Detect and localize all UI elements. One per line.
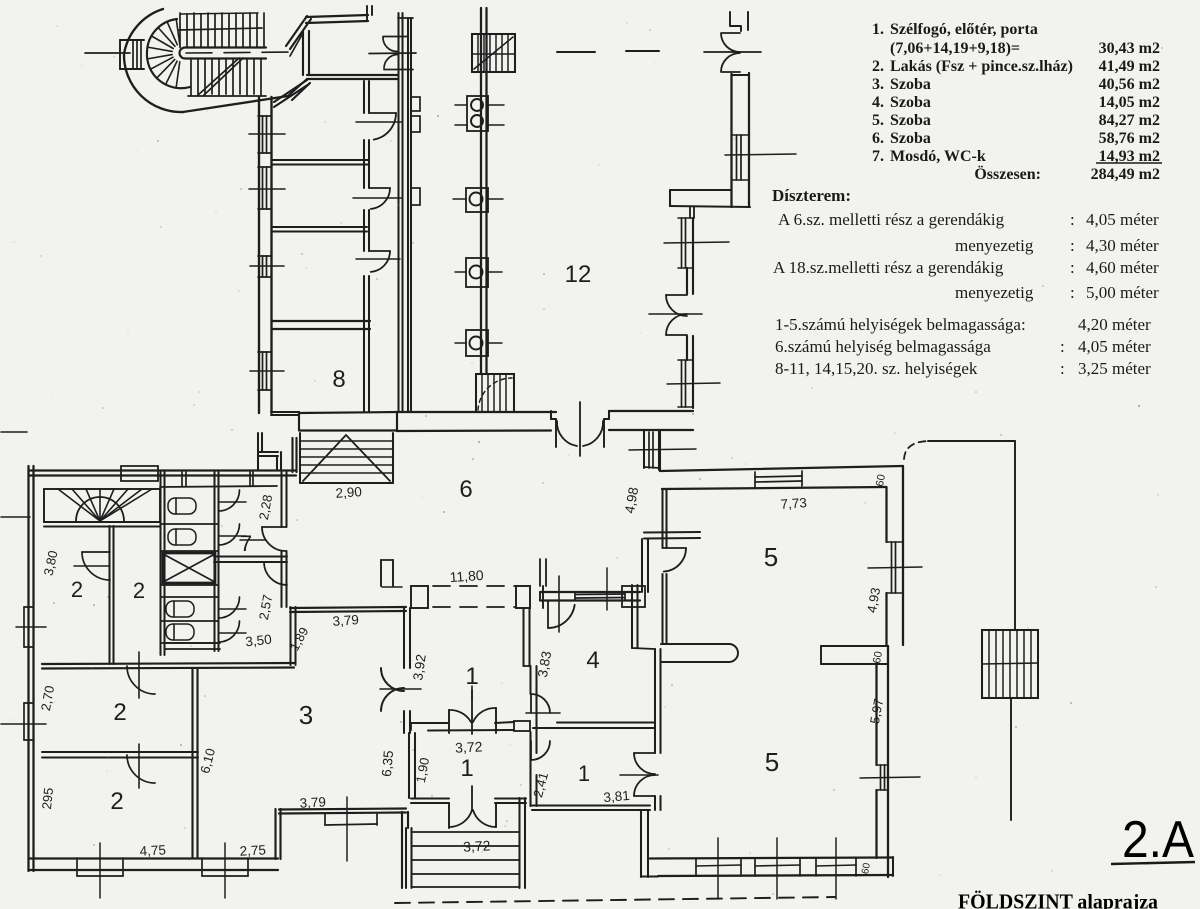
SW block west outer wall [27, 466, 29, 871]
door small room to room 5 (double leaves) [634, 752, 655, 754]
room 1 lower west wall [408, 733, 410, 798]
axis tick left margin y517 [1, 516, 30, 518]
SW block north wall [29, 469, 297, 471]
window in east thick wall [736, 135, 738, 180]
svg-text:4,05 méter: 4,05 méter [1078, 337, 1151, 356]
axis tick left margin y433 [1, 431, 27, 433]
window in west wall 2 [24, 702, 33, 704]
hall east wall lower [289, 607, 291, 665]
main south stair rails [405, 828, 407, 888]
svg-text:1: 1 [578, 761, 590, 786]
partition rooms 2a/2b [108, 526, 110, 664]
wing bottom wall step [298, 412, 300, 430]
svg-text:3,50: 3,50 [245, 632, 273, 650]
door room C - leaf and arc [369, 250, 390, 252]
room 5 lower east wall [887, 646, 889, 877]
corridor wall top stubs [398, 17, 413, 19]
room 1 lower east wall [529, 733, 531, 806]
yard north line [928, 440, 1015, 442]
double door room3 to room1u [381, 668, 404, 691]
svg-text::: : [1070, 283, 1075, 302]
svg-text:Szoba: Szoba [890, 76, 931, 93]
wall rooms 2c/2d [42, 751, 198, 753]
column 3 with circle [466, 258, 488, 287]
radiator box 2 on corridor wall [411, 116, 420, 132]
room 1 lower south wall [411, 797, 449, 799]
svg-text:60: 60 [874, 473, 888, 487]
bay wall vertical [302, 31, 304, 75]
svg-text::: : [1070, 210, 1075, 229]
area list text block [872, 21, 1162, 183]
room 3 north wall [290, 607, 406, 608]
svg-text:2,75: 2,75 [239, 842, 266, 858]
svg-text:6.: 6. [872, 130, 884, 147]
entrance double door leaves [555, 419, 557, 447]
svg-text:58,76 m2: 58,76 m2 [1099, 130, 1160, 147]
stairs 2,90 in hall 6 [299, 433, 301, 483]
room 12 east thick wall upper [730, 74, 732, 207]
top wall right of bay [306, 15, 368, 17]
main south stair treads [412, 831, 520, 833]
column 2 with circle [466, 188, 488, 212]
window W3 on west wall [258, 255, 271, 257]
svg-text:Szoba: Szoba [890, 112, 931, 129]
pier wall west (between 5 upper and lower) [661, 643, 729, 645]
svg-text:3.: 3. [872, 76, 884, 93]
hall 6 south wall [540, 591, 640, 593]
svg-text:2.A: 2.A [1122, 811, 1194, 869]
window in north wall [755, 476, 802, 477]
svg-text:menyezetig: menyezetig [955, 283, 1034, 302]
room 5 west wall [658, 430, 660, 470]
staircase lower edge line [188, 95, 266, 97]
bay wall upper diagonal [286, 16, 307, 46]
svg-text:3,25 méter: 3,25 méter [1078, 359, 1151, 378]
radiator box 1 on corridor wall [411, 97, 420, 111]
door room C - tick [356, 258, 400, 260]
small room door NW - leaf [530, 741, 532, 760]
svg-text:(7,06+14,19+9,18)=: (7,06+14,19+9,18)= [890, 40, 1020, 57]
window in hall6 south wall [575, 593, 625, 596]
svg-text:1.: 1. [872, 21, 884, 38]
room 5 east wall inner [885, 487, 887, 542]
staircase spiral - inner wall arc [147, 19, 190, 88]
yard east line [1014, 441, 1016, 630]
room 5 upper north wall [660, 466, 903, 471]
svg-text:2.: 2. [872, 58, 884, 75]
svg-text:4,20 méter: 4,20 méter [1078, 315, 1151, 334]
entrance door jambs [550, 411, 552, 419]
door room B - tick [353, 197, 401, 199]
svg-text:6,35: 6,35 [379, 750, 396, 777]
svg-text:2: 2 [71, 577, 83, 602]
room 1 upper south wall with double door [411, 722, 449, 724]
svg-text:3,81: 3,81 [603, 788, 630, 805]
south wall corner block east [514, 721, 530, 731]
svg-text::: : [1070, 258, 1075, 277]
small room south wall [532, 804, 650, 806]
svg-text:14,05 m2: 14,05 m2 [1099, 94, 1160, 111]
room 12 west wall [480, 8, 482, 374]
hatched stair box bottom (room 12) [476, 374, 514, 412]
window in room 3 south wall [324, 813, 326, 825]
room 12 north door leaves [722, 32, 740, 34]
room 4 east wall upper [631, 585, 633, 648]
east wall door (double leaves into room 12) [666, 294, 687, 296]
svg-text:60: 60 [871, 650, 885, 664]
svg-text:4,75: 4,75 [139, 842, 166, 858]
window E1 in east wall [681, 218, 683, 268]
svg-text:8: 8 [332, 366, 345, 393]
svg-text:3,72: 3,72 [455, 738, 483, 755]
hatched duct box top [472, 34, 515, 72]
svg-text:40,56 m2: 40,56 m2 [1099, 76, 1160, 93]
corridor stub wall at hall 6 [380, 560, 382, 586]
north wing - slanted top wall of first room [274, 80, 307, 102]
window in east wall lower [880, 765, 882, 790]
corridor east wall (double pair) [397, 13, 399, 412]
hall 6 north wall right of door [609, 410, 693, 412]
staircase bottom outer wall [183, 96, 288, 112]
svg-text:4,30 méter: 4,30 méter [1086, 236, 1159, 255]
entrance door centerline [579, 402, 581, 456]
wing bottom wall left thin part [271, 411, 299, 413]
wall under fan stair [44, 521, 160, 523]
svg-text:5: 5 [764, 542, 778, 572]
svg-text:2,90: 2,90 [335, 484, 362, 501]
svg-text:4: 4 [586, 647, 599, 674]
partition wall room B/C [272, 226, 367, 228]
corridor jamb block west [411, 586, 428, 608]
top wall end stubs [366, 6, 368, 21]
corridor dashed line lower [433, 606, 516, 608]
window W1 on west wall [258, 115, 271, 117]
svg-text:30,43 m2: 30,43 m2 [1099, 40, 1160, 57]
staircase upper treads [179, 13, 181, 48]
door to room 2d - arc and tick [127, 755, 155, 783]
east wall of small rooms (corridor side) [363, 81, 365, 113]
window W2 on west wall [258, 166, 271, 168]
room 1 upper door centerline dash [471, 686, 473, 700]
radiator box 3 on corridor wall [411, 188, 420, 205]
svg-text:6.számú helyiség belmagassága: 6.számú helyiség belmagassága [775, 337, 991, 356]
svg-text:3,79: 3,79 [332, 612, 359, 629]
bay lower diagonal wall [289, 79, 307, 95]
axis dashes through staircase [186, 52, 298, 53]
yard dashed corner arc [904, 441, 928, 459]
WC strip east wall [213, 472, 215, 651]
room 7 door - leaf and arc [262, 526, 286, 528]
WC top vent row [160, 486, 277, 487]
WC strip west wall [159, 472, 161, 655]
staircase fan treads lower-left [176, 62, 179, 87]
room 5 lower south wall [650, 858, 893, 859]
svg-text:Díszterem:: Díszterem: [772, 186, 851, 205]
svg-text:A 18.sz.melletti rész a gerend: A 18.sz.melletti rész a gerendákig [773, 258, 1004, 277]
lintel wall above room 5 door [644, 531, 700, 534]
window in west wall 1 [24, 606, 33, 608]
hatched gate box [982, 630, 1038, 698]
corridor jamb block east [516, 586, 530, 608]
door room B - leaf and arc [369, 187, 390, 189]
corridor dashed line upper [433, 585, 516, 587]
door to room 12 corridor - leaves [383, 36, 408, 38]
small room west wall [529, 732, 531, 806]
door room1u to room4 area - leaf [530, 694, 532, 713]
svg-text:1-5.számú helyiségek belmagass: 1-5.számú helyiségek belmagassága: [775, 315, 1026, 334]
svg-text:FÖLDSZINT alaprajza: FÖLDSZINT alaprajza [958, 890, 1158, 909]
svg-text:Mosdó, WC-k: Mosdó, WC-k [890, 148, 986, 165]
door room A - leaf and arc [369, 112, 396, 114]
svg-text::: : [1070, 236, 1075, 255]
room 1 upper east wall [522, 608, 524, 666]
door rooms 2a/2b [82, 551, 110, 553]
west outer wall of north wing [258, 97, 260, 413]
room 4 east wall jog [632, 648, 655, 649]
svg-text:2: 2 [133, 578, 145, 603]
svg-text:Összesen:: Összesen: [974, 165, 1041, 183]
toilet 4 [166, 624, 194, 640]
svg-text:4.: 4. [872, 94, 884, 111]
dashed property line bottom [395, 897, 835, 903]
window in north wall [121, 465, 158, 467]
svg-text:4,60 méter: 4,60 méter [1086, 258, 1159, 277]
partition wall room A/B [272, 159, 369, 161]
pilaster wall right of entrance [643, 430, 645, 468]
axis tick line left of staircase [85, 52, 130, 54]
wall rooms2ab / 2c [42, 663, 294, 664]
double door room1u/room1l (swings up) [448, 710, 450, 733]
ceiling heights text block [772, 186, 1159, 378]
wing bottom thick wall under room 8 [299, 412, 397, 413]
WC cubicle dividers [161, 523, 219, 525]
staircase main spiral - outer wall arc [124, 9, 183, 112]
room 12 east wall lower [686, 268, 688, 294]
yard line below gate [1010, 698, 1012, 820]
pillar left of room4 east wall [622, 586, 645, 607]
svg-text:A 6.sz. melletti rész a gerend: A 6.sz. melletti rész a gerendákig [778, 210, 1005, 229]
column 4 with circle [466, 330, 488, 356]
room 5 east wall outer [902, 466, 904, 645]
room 4/5 wall lower [654, 649, 656, 753]
door to room 12 corridor - tick [369, 52, 416, 55]
staircase spiral - core slot [180, 48, 267, 59]
room 3 south wall west step [274, 809, 276, 859]
window W4 on west wall [258, 351, 271, 353]
entrance bump on left of staircase [120, 39, 144, 41]
corner piece east of corridor [542, 586, 544, 608]
staircase tread top line [180, 13, 258, 14]
svg-text:3,72: 3,72 [463, 837, 491, 854]
fan staircase box [44, 489, 160, 522]
room 3 south wall [279, 809, 406, 810]
SW block south wall [29, 857, 279, 859]
room 1 upper west wall [403, 608, 405, 668]
toilet 3 [166, 601, 194, 617]
svg-text:284,49 m2: 284,49 m2 [1091, 166, 1160, 183]
window E2 in east wall [681, 360, 683, 407]
door to SW block (double leaves) [381, 668, 404, 691]
svg-text:7.: 7. [872, 148, 884, 165]
svg-text:1: 1 [460, 755, 473, 782]
toilet 2 [168, 529, 196, 545]
staircase fan treads upper-left [148, 47, 173, 51]
svg-text::: : [1060, 359, 1065, 378]
connector wall below west wall [257, 433, 259, 470]
toilet 1 [168, 498, 196, 514]
hall south wall above rooms [307, 74, 398, 76]
door hall6 to room 5 - leaf [663, 547, 687, 549]
door to room 2c - arc and tick [127, 666, 155, 694]
wall step west of room 5 south wall [640, 810, 642, 877]
room 12 north door jamb [730, 12, 741, 31]
bay door leaf [290, 33, 303, 56]
svg-text:Lakás (Fsz + pince.sz.lház): Lakás (Fsz + pince.sz.lház) [890, 58, 1073, 75]
column pair 1 with circles [467, 96, 488, 131]
svg-text:7,73: 7,73 [780, 495, 807, 512]
room 7 east wall [280, 472, 282, 527]
wall below room 7 [214, 556, 287, 558]
svg-text:8-11, 14,15,20. sz. helyiségek: 8-11, 14,15,20. sz. helyiségek [775, 359, 978, 378]
staircase lower treads [190, 59, 192, 96]
windows in room5 south wall [695, 858, 697, 876]
room 3 east boundary lower [401, 812, 403, 888]
WC doors arcs [219, 490, 240, 511]
svg-text:3,79: 3,79 [299, 794, 326, 810]
fan staircase radial treads [58, 489, 100, 521]
svg-text:12: 12 [565, 261, 592, 288]
room 12 axis dashes [557, 51, 595, 53]
windows in south wall [76, 858, 78, 876]
svg-text:84,27 m2: 84,27 m2 [1099, 112, 1160, 129]
svg-text:5,00 méter: 5,00 méter [1086, 283, 1159, 302]
wall between hall6 and room4 junction [641, 539, 643, 592]
scan speckles [390, 140, 392, 142]
svg-text:Szélfogó, előtér, porta: Szélfogó, előtér, porta [890, 21, 1038, 38]
hall 6 thick north wall [397, 411, 556, 413]
staircase upper landing line [179, 28, 262, 30]
svg-text:7: 7 [240, 531, 252, 556]
shower box with X [163, 553, 215, 583]
svg-text:Szoba: Szoba [890, 94, 931, 111]
exit double door (swings down) [448, 803, 450, 828]
tick through pilaster [629, 449, 696, 450]
svg-text:4,05 méter: 4,05 méter [1086, 210, 1159, 229]
room 12 north door tick [704, 51, 761, 53]
svg-text:menyezetig: menyezetig [955, 236, 1034, 255]
staircase direction diagonals [197, 58, 239, 96]
svg-text:11,80: 11,80 [449, 567, 484, 585]
door hall6 to room 4 - leaf arc tick [547, 601, 549, 628]
door room A - tick [356, 121, 401, 123]
svg-text:2: 2 [110, 788, 123, 815]
svg-text:295: 295 [39, 787, 56, 810]
svg-text:41,49 m2: 41,49 m2 [1099, 58, 1160, 75]
svg-text:2: 2 [113, 699, 126, 726]
svg-text:5.: 5. [872, 112, 884, 129]
svg-text:5: 5 [765, 747, 779, 777]
connector east wall [291, 438, 293, 472]
svg-text:6: 6 [459, 476, 472, 503]
door in wall below room 7 [264, 562, 287, 585]
pier wall east [821, 645, 888, 647]
svg-text:Szoba: Szoba [890, 130, 931, 147]
east wall jog [670, 189, 731, 191]
window in east wall upper [891, 542, 893, 593]
room 4 south wall [557, 721, 655, 723]
partition wall room C / room 8 [272, 320, 370, 322]
svg-text::: : [1060, 337, 1065, 356]
east wall of rooms 2 [191, 668, 193, 858]
svg-text:3: 3 [299, 700, 313, 730]
WC strip bottom wall [165, 642, 220, 644]
